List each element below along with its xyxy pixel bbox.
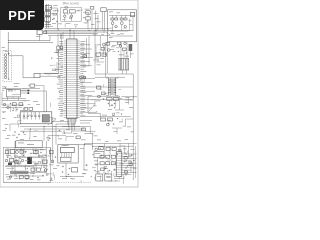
vertical out wires [60,163,84,179]
jungle IC U801 pins [116,154,122,175]
main IC U101 pin rows [67,41,77,117]
mid right verticals [95,42,127,74]
top mid extra labels [54,3,101,29]
jungle IC U801 body [116,152,122,177]
vertical IC U301 frame [58,145,78,163]
IC bottom pin drops [48,119,76,141]
PDF badge [0,0,44,30]
hybrid module HY1 [42,115,49,122]
transistor Q801 [94,147,104,158]
mid-left component field [3,108,38,140]
switching transformer T601 [106,78,119,96]
audio section parts row1 [6,150,27,157]
audio section parts row2 [5,157,30,167]
connector CN201 capacitors [23,112,40,120]
section frame inner wires [8,148,43,158]
bus junction drops [61,29,75,39]
under-IC component field [46,114,65,141]
page sheet [0,0,138,187]
power transistor Q601 [27,157,32,164]
PSU hot-side cluster [116,42,134,59]
svg-text:MAIN BOARD: MAIN BOARD [63,2,80,6]
degauss rail wire [109,15,135,18]
bottom dashed rail [4,181,92,183]
feeder wire pair [8,32,53,55]
junction connector [20,90,30,94]
bus wire 1 [45,28,110,30]
power supply component field [96,84,129,126]
main IC U101 left pin labels [57,41,63,116]
rectifier D601 group [89,86,106,112]
main IC U101 pin stubs [64,41,80,117]
wire U301 right [78,145,92,170]
regulator IC106 [94,8,107,30]
left of U301 parts [49,144,57,169]
wire tuner output [9,50,61,84]
centre-bottom component field [49,165,92,183]
wires under main IC [53,119,93,145]
video amp box [16,141,42,151]
B+ cluster [85,113,115,133]
crystal X101 [80,77,86,82]
capacitor C110 block [36,30,47,41]
degauss bottom wire [106,31,134,36]
bus wire 4 [45,33,99,35]
bus wire 2 [45,29,134,31]
ground return wire [104,168,124,179]
diode row D801 [100,155,115,158]
connector CN201 frame [20,112,52,124]
transistor Q201 cluster [110,18,118,31]
degauss box extra [109,12,133,35]
connector CN601 bars [118,52,129,70]
bottom-right component field [95,146,135,184]
degauss block frame [108,10,137,42]
audio rail wires [5,141,46,176]
main IC U101 right pin labels [80,41,86,116]
sub-board SB1 [61,7,81,21]
relay RL1 [130,12,134,16]
transistor Q101 [2,103,23,113]
transistor Q202 cluster [120,18,127,31]
wire IF row [2,97,31,108]
bus junction ticks [93,29,120,38]
CRT socket boxes [96,170,112,181]
junction dots [30,29,134,177]
IF unit cluster [45,4,54,28]
diode row D802 [100,162,115,165]
main IC U101 body [67,39,77,119]
top-centre component field [48,7,89,28]
wire bottom-right rails [84,133,137,150]
resistor R115 group [54,34,63,59]
SAW filter Z101 [6,89,20,97]
capacitor C220 group [12,131,24,140]
PSU primary cluster [93,36,116,60]
vertical IC U301 [60,145,74,161]
tuner TU1 shield [3,51,12,82]
resistor R101 [51,8,57,29]
IC surroundings field [47,49,66,111]
label smudges left [2,87,40,105]
bottom right extra parts [92,136,131,175]
audio box extra parts [5,149,50,180]
secondary rect pair [104,96,120,107]
left column extra parts [2,47,33,136]
wire row under CN201 [20,126,90,141]
wire right rail set [122,74,138,180]
wire risers right of IC [83,36,89,66]
IC right wires [80,45,133,117]
CRT drive parts [96,166,121,181]
peaking coil L5 [28,84,44,91]
capacitor C105 [83,9,90,29]
bus wire 5 [48,34,110,36]
right mid extra wires [88,96,134,134]
audio section parts row3 [5,157,47,179]
bus wire 3 [45,31,106,33]
wire H-rail upper [44,30,133,77]
jungle IC fan-out wires [122,153,137,176]
capacitor C120 group [55,62,63,72]
tuner coil winding L1 [4,54,7,79]
audio section component field [6,149,52,180]
jungle IC right parts [124,146,137,178]
wire video out [2,89,47,113]
audio-power section frame [3,148,51,183]
tuner tuning slug [5,51,10,80]
heatsink bar [10,171,29,174]
